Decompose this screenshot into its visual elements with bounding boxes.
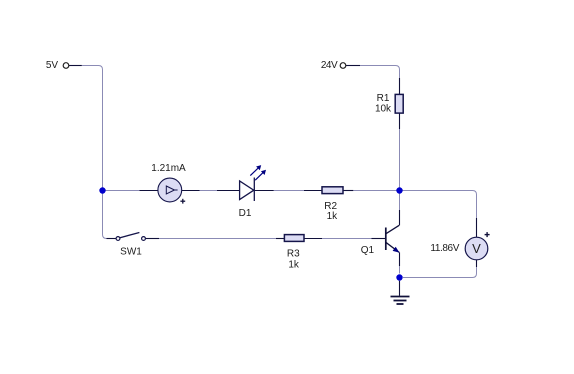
svg-text:1k: 1k: [288, 260, 300, 271]
svg-text:R1: R1: [377, 93, 390, 104]
svg-text:11.86V: 11.86V: [430, 243, 459, 254]
svg-text:24V: 24V: [321, 60, 338, 71]
svg-text:Q1: Q1: [361, 245, 375, 256]
svg-text:5V: 5V: [46, 60, 59, 71]
svg-text:V: V: [472, 241, 481, 256]
svg-text:1k: 1k: [327, 211, 339, 222]
svg-text:1.21mA: 1.21mA: [151, 163, 186, 174]
svg-text:10k: 10k: [375, 104, 392, 115]
svg-text:R3: R3: [287, 249, 300, 260]
svg-text:SW1: SW1: [120, 246, 142, 257]
svg-text:D1: D1: [239, 208, 252, 219]
